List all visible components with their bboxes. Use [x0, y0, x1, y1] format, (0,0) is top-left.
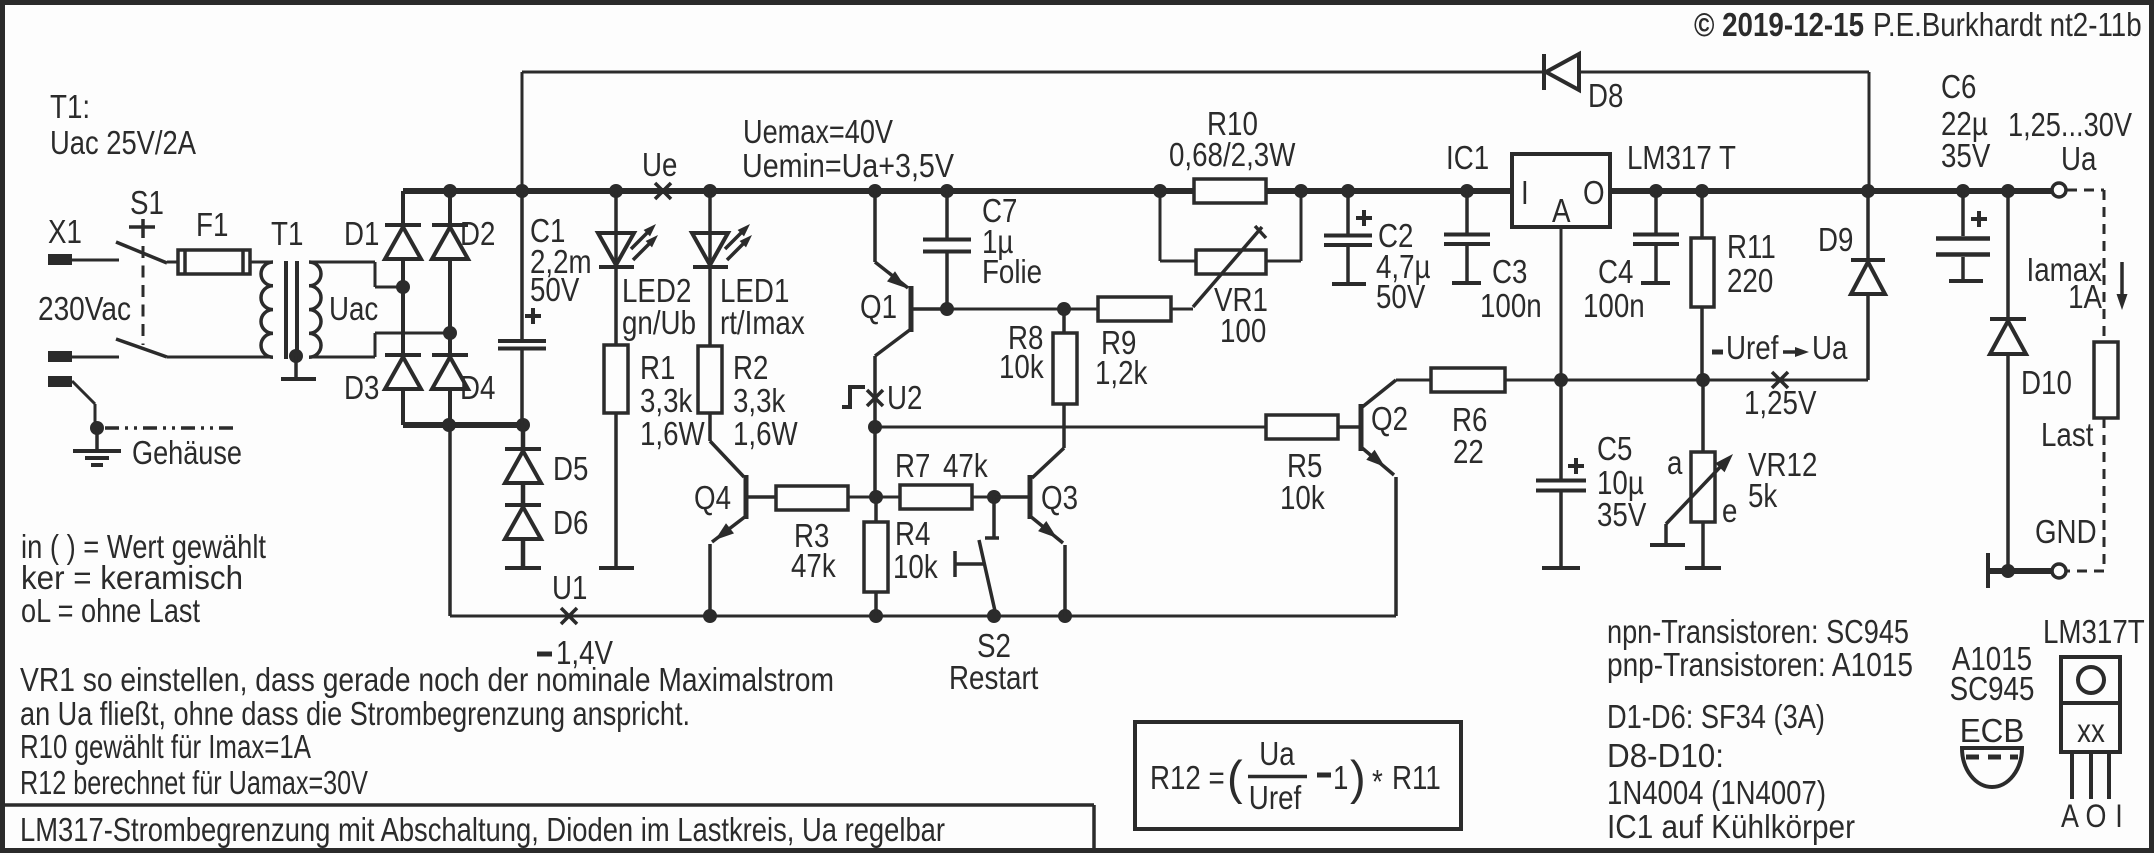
svg-text:Ua: Ua: [2061, 140, 2097, 177]
label note R10: [20, 728, 311, 765]
resistor R2: [698, 346, 722, 413]
label legend: [21, 528, 266, 629]
terminal D6 end: [505, 566, 541, 570]
svg-text:35V: 35V: [1597, 496, 1646, 533]
svg-text:Ua: Ua: [1259, 735, 1295, 772]
svg-text:X1: X1: [48, 213, 82, 250]
svg-text:220: 220: [1727, 262, 1773, 299]
svg-text:Uref: Uref: [1249, 779, 1302, 816]
svg-text:C6: C6: [1941, 68, 1976, 105]
label note R12: [20, 764, 368, 801]
wire secondary bottom: [309, 333, 450, 357]
transistor Q2: [1338, 380, 1396, 616]
svg-text:I: I: [2115, 798, 2123, 834]
svg-text:GND: GND: [2035, 513, 2097, 550]
svg-text:D3: D3: [344, 369, 379, 406]
svg-text:10k: 10k: [999, 348, 1044, 385]
svg-text:230Vac: 230Vac: [38, 290, 131, 327]
junction GND D10: [2001, 564, 2015, 578]
svg-text:VR1 so einstellen, dass gerade: VR1 so einstellen, dass gerade noch der …: [20, 661, 834, 698]
svg-text:D8: D8: [1588, 77, 1623, 114]
wire S1 to F1: [167, 261, 178, 264]
svg-text:LM317T: LM317T: [2043, 613, 2145, 650]
svg-text:IC1 auf Kühlkörper: IC1 auf Kühlkörper: [1607, 808, 1855, 845]
resistor R1: [604, 345, 628, 413]
svg-text:100n: 100n: [1583, 287, 1645, 324]
svg-text:xx: xx: [2077, 712, 2105, 749]
wire C7 top: [945, 191, 949, 238]
svg-text:R1: R1: [640, 349, 675, 386]
svg-text:npn-Transistoren: SC945: npn-Transistoren: SC945: [1607, 613, 1909, 650]
label 230Vac: [38, 290, 131, 327]
wire secondary top: [309, 262, 403, 287]
junction rail R4: [869, 609, 883, 623]
title text: [20, 811, 945, 848]
svg-text:S1: S1: [130, 184, 164, 221]
wire R2 to Q4: [708, 413, 712, 441]
label C1: [530, 212, 592, 308]
label T1: [271, 215, 303, 252]
svg-text:1,25V: 1,25V: [1744, 384, 1817, 421]
label IC1: [1446, 139, 1489, 176]
wire R1 bottom: [614, 413, 618, 568]
wire top feedback: [522, 72, 1869, 191]
svg-text:5k: 5k: [1748, 477, 1778, 514]
svg-text:D8-D10:: D8-D10:: [1607, 737, 1724, 774]
resistor R10: [1194, 179, 1266, 203]
svg-text:3,3k: 3,3k: [640, 382, 693, 419]
svg-text:D1-D6: SF34 (3A): D1-D6: SF34 (3A): [1607, 698, 1825, 735]
junction ADJ R6: [1554, 373, 1568, 387]
svg-text:D5: D5: [553, 450, 588, 487]
svg-text:T1:: T1:: [50, 88, 90, 125]
wire D5 chain: [521, 425, 526, 568]
svg-text:pnp-Transistoren: A1015: pnp-Transistoren: A1015: [1607, 646, 1913, 683]
svg-text:A: A: [2061, 798, 2079, 834]
wire LED2 top: [614, 191, 618, 266]
resistor R3: [776, 486, 848, 510]
svg-text:R12 =: R12 =: [1150, 759, 1225, 796]
wire chassis dash-dot: [105, 426, 233, 430]
svg-text:Uac: Uac: [329, 290, 378, 327]
resistor R7: [876, 485, 994, 509]
transistor Q3: [994, 475, 1065, 616]
svg-text:U2: U2: [887, 379, 922, 416]
svg-text:50V: 50V: [1376, 278, 1425, 315]
junction R7 S2 Q3: [987, 490, 1001, 504]
wire S1 to T1 primary: [167, 356, 273, 359]
label F1: [196, 206, 228, 243]
terminal Ua: [2052, 183, 2066, 197]
label R2: [733, 349, 798, 452]
wire bottom rail: [450, 425, 1396, 616]
capacitor C1: [498, 308, 546, 349]
label C6: [1941, 68, 1990, 174]
svg-text:*: *: [1372, 763, 1383, 800]
svg-text:LM317 T: LM317 T: [1627, 139, 1736, 176]
junction bus LED2: [609, 184, 623, 198]
junction bus C7: [940, 184, 954, 198]
junction rail right: [516, 418, 530, 432]
svg-text:D2: D2: [460, 215, 495, 252]
svg-text:Gehäuse: Gehäuse: [132, 434, 242, 471]
svg-text:ECB: ECB: [1960, 712, 2025, 749]
label IC1 note: [1607, 808, 1855, 845]
label Iamax: [2027, 251, 2103, 315]
svg-text:35V: 35V: [1941, 137, 1990, 174]
transformer T1 primary winding: [261, 262, 273, 357]
label C7: [982, 192, 1042, 290]
resistor R11: [1691, 191, 1714, 380]
label D10: [2021, 364, 2072, 401]
resistor R6: [1431, 368, 1505, 392]
node Uref marker: [1712, 329, 1848, 421]
label Q1: [860, 288, 897, 325]
label T1 note: [50, 88, 196, 161]
junction bus LED1: [703, 184, 717, 198]
svg-text:): ): [1350, 751, 1366, 804]
led LED2: [598, 224, 658, 267]
junction bridge AC left: [396, 280, 410, 294]
wire Q1 base to R8: [947, 308, 1064, 311]
wire U2 node: [868, 420, 1266, 497]
diode D8: [1544, 54, 1579, 90]
wire C7 bottom: [945, 253, 949, 309]
svg-text:50V: 50V: [530, 271, 579, 308]
svg-text:IC1: IC1: [1446, 139, 1489, 176]
wire LED1 to R2: [708, 267, 712, 346]
diode D9: [1851, 191, 1885, 380]
svg-text:D9: D9: [1818, 221, 1853, 258]
svg-text:C4: C4: [1598, 253, 1633, 290]
label S1: [130, 184, 164, 221]
label R8: [999, 319, 1044, 385]
label R3: [791, 517, 836, 584]
svg-text:3,3k: 3,3k: [733, 382, 786, 419]
svg-text:R11: R11: [1392, 759, 1441, 796]
current arrow: [2117, 262, 2128, 310]
wire GND rail: [1988, 553, 2052, 588]
capacitor C7: [923, 240, 971, 252]
junction T1 core ground: [289, 349, 303, 363]
wire R6 to ADJ: [1505, 379, 1561, 382]
diode D5: [505, 449, 541, 483]
label LED2: [622, 272, 696, 341]
svg-text:D10: D10: [2021, 364, 2072, 401]
wire ADJ: [1561, 227, 1868, 380]
label output range: [2008, 106, 2132, 143]
svg-text:100: 100: [1220, 312, 1266, 349]
label C2: [1376, 217, 1431, 315]
wire bridge left column: [401, 191, 405, 425]
label C3: [1480, 253, 1542, 324]
label R6: [1452, 401, 1487, 470]
label S2: [949, 627, 1038, 696]
svg-text:10k: 10k: [1280, 479, 1325, 516]
label Uemax: [743, 113, 893, 150]
transformer T1 secondary winding: [309, 262, 321, 357]
terminal GND: [2052, 564, 2066, 578]
label Q4: [694, 479, 731, 516]
svg-text:LM317-Strombegrenzung mit Absc: LM317-Strombegrenzung mit Abschaltung, D…: [20, 811, 945, 848]
svg-text:a: a: [1667, 444, 1683, 481]
switch S1 pole1 blade: [116, 242, 167, 263]
label D4: [460, 369, 495, 406]
svg-text:47k: 47k: [791, 547, 836, 584]
package TO-220: [2043, 613, 2145, 834]
label LM317 T: [1627, 139, 1736, 176]
label D2: [460, 215, 495, 252]
label R10: [1169, 105, 1296, 173]
svg-text:22: 22: [1453, 433, 1484, 470]
svg-text:Q3: Q3: [1041, 479, 1078, 516]
junction bus Q1: [868, 184, 882, 198]
wire bridge right column: [448, 191, 452, 425]
svg-text:0,68/2,3W: 0,68/2,3W: [1169, 136, 1296, 173]
led LED1: [692, 224, 752, 267]
label C4: [1583, 253, 1645, 324]
wire main positive bus: [403, 188, 2052, 194]
junction rail S2: [987, 609, 1001, 623]
trimmer VR1: [1193, 226, 1266, 307]
ground chassis symbol: [73, 428, 121, 465]
junction bus D9: [1861, 184, 1875, 198]
wire X1 line: [72, 259, 119, 262]
diode D10: [1990, 191, 2026, 571]
label Last: [2041, 416, 2093, 453]
diode D3: [385, 355, 421, 389]
label transistor types: [1607, 613, 1913, 683]
svg-text:Ua: Ua: [1812, 329, 1848, 366]
junction rail left: [442, 418, 456, 432]
capacitor C6: [1936, 191, 1990, 281]
label X1: [48, 213, 82, 250]
node U2: [842, 379, 922, 416]
label VR12: [1667, 444, 1817, 529]
wire Q2 to R6: [1396, 379, 1431, 382]
junction bus C1: [515, 184, 529, 198]
svg-text:Uemax=40V: Uemax=40V: [743, 113, 893, 150]
svg-text:© 2019-12-15: © 2019-12-15: [1694, 6, 1864, 43]
svg-text:A: A: [1552, 192, 1571, 229]
resistor R5: [1266, 415, 1338, 439]
junction bus C2: [1341, 184, 1355, 198]
wire X1 earth: [72, 381, 95, 428]
svg-text:T1: T1: [271, 215, 303, 252]
label D3: [344, 369, 379, 406]
junction bus R10 right: [1294, 184, 1308, 198]
label R7: [895, 447, 988, 484]
junction earth node: [90, 421, 104, 435]
label D1: [344, 215, 379, 252]
capacitor C2: [1324, 191, 1372, 284]
title box: [5, 805, 1094, 848]
junction base line R8: [1057, 302, 1071, 316]
junction bus C4: [1649, 184, 1663, 198]
svg-text:C3: C3: [1492, 253, 1527, 290]
transistor Q4: [710, 441, 776, 616]
svg-text:Restart: Restart: [949, 659, 1038, 696]
svg-text:1,25...30V: 1,25...30V: [2008, 106, 2132, 143]
wire R8 top: [1062, 309, 1066, 333]
resistor R9: [1064, 297, 1193, 321]
junction bus D10: [2001, 184, 2015, 198]
svg-text:R7: R7: [895, 447, 930, 484]
svg-text:gn/Ub: gn/Ub: [622, 304, 696, 341]
svg-text:R10 gewählt für Imax=1A: R10 gewählt für Imax=1A: [20, 728, 311, 765]
svg-text:Uemin=Ua+3,5V: Uemin=Ua+3,5V: [742, 147, 954, 184]
label Uac winding: [329, 290, 378, 327]
svg-text:Last: Last: [2041, 416, 2093, 453]
svg-text:1N4004 (1N4007): 1N4004 (1N4007): [1607, 774, 1826, 811]
label D8: [1588, 77, 1623, 114]
svg-text:100n: 100n: [1480, 287, 1542, 324]
junction R3 R7 R4: [869, 490, 883, 504]
svg-text:R11: R11: [1727, 228, 1776, 265]
svg-text:D6: D6: [553, 504, 588, 541]
label note VR1: [20, 661, 834, 732]
label Q3: [1041, 479, 1078, 516]
label Gehäuse: [132, 434, 242, 471]
svg-text:Ue: Ue: [642, 146, 677, 183]
wire C1 bottom: [520, 350, 524, 425]
transformer T1 core: [286, 261, 297, 359]
diode D1: [385, 225, 421, 259]
copyright: [1694, 6, 2142, 43]
wire VR1 loop: [1160, 191, 1301, 261]
svg-text:1,6W: 1,6W: [640, 415, 705, 452]
node U1: [552, 569, 587, 624]
capacitor C4: [1633, 191, 1679, 283]
transistor Q1: [875, 191, 947, 427]
diode D2: [432, 225, 468, 259]
label R5: [1280, 447, 1325, 516]
svg-text:I: I: [1521, 174, 1529, 211]
diode D4: [432, 355, 468, 389]
label R1: [640, 349, 705, 452]
trimmer VR12: [1650, 380, 1733, 568]
label GND: [2035, 513, 2097, 550]
label diode types: [1607, 698, 1826, 811]
svg-text:P.E.Burkhardt nt2-11b: P.E.Burkhardt nt2-11b: [1873, 6, 2142, 43]
svg-text:SC945: SC945: [1950, 670, 2035, 707]
svg-text:D1: D1: [344, 215, 379, 252]
regulator IC1: [1512, 154, 1610, 229]
svg-text:R2: R2: [733, 349, 768, 386]
switch S1 link: [129, 219, 155, 345]
wire load dashed: [2067, 190, 2104, 571]
svg-text:Folie: Folie: [982, 253, 1042, 290]
label C5: [1597, 430, 1646, 533]
capacitor C5: [1536, 380, 1586, 568]
svg-text:O: O: [1583, 174, 1605, 211]
svg-text:F1: F1: [196, 206, 228, 243]
svg-text:1A: 1A: [2068, 278, 2102, 315]
svg-text:Uac 25V/2A: Uac 25V/2A: [50, 124, 196, 161]
svg-text:Uref: Uref: [1726, 329, 1779, 366]
svg-text:R12 berechnet für Uamax=30V: R12 berechnet für Uamax=30V: [20, 764, 368, 801]
node Ue: [642, 146, 677, 199]
label Ua: [2061, 140, 2097, 177]
capacitor C3: [1444, 191, 1490, 283]
wire R8 to Q3: [1032, 404, 1064, 478]
svg-text:rt/Imax: rt/Imax: [720, 304, 805, 341]
label -1,4V: [537, 634, 613, 671]
label R11: [1727, 228, 1776, 299]
svg-text:U1: U1: [552, 569, 587, 606]
svg-text:Q4: Q4: [694, 479, 731, 516]
label R4: [893, 515, 938, 585]
wire F1 to T1: [250, 261, 273, 264]
svg-text:D4: D4: [460, 369, 495, 406]
svg-text:1,6W: 1,6W: [733, 415, 798, 452]
junction rail Q3: [1058, 609, 1072, 623]
svg-text:R4: R4: [895, 515, 930, 552]
package TO-92: [1950, 640, 2035, 787]
svg-text:Q2: Q2: [1371, 400, 1408, 437]
svg-text:oL = ohne Last: oL = ohne Last: [21, 592, 200, 629]
wire R3 to node: [848, 496, 876, 499]
fuse F1: [178, 250, 250, 274]
label D5: [553, 450, 588, 487]
wire LED1 top: [708, 191, 712, 266]
label Uemin: [742, 147, 954, 184]
wire LED2 to R1: [614, 267, 618, 345]
wire bridge bottom rail: [403, 422, 523, 428]
diode D6: [505, 505, 541, 539]
label D9: [1818, 221, 1853, 258]
wire C1 top: [520, 191, 524, 339]
junction bus R10 left: [1153, 184, 1167, 198]
transformer core ground stub: [281, 356, 316, 379]
junction bus C3: [1460, 184, 1474, 198]
svg-text:Q1: Q1: [860, 288, 897, 325]
label Q2: [1371, 400, 1408, 437]
svg-text:1,2k: 1,2k: [1095, 354, 1148, 391]
svg-text:C5: C5: [1597, 430, 1632, 467]
svg-text:10k: 10k: [893, 548, 938, 585]
junction bus C6: [1956, 184, 1970, 198]
terminal R1 end: [599, 566, 634, 570]
switch S1 pole2 blade: [116, 339, 167, 357]
svg-text:an Ua fließt, ohne dass die St: an Ua fließt, ohne dass die Strombegrenz…: [20, 695, 690, 732]
label D6: [553, 504, 588, 541]
formula box: [1135, 722, 1461, 829]
junction rail Q4: [703, 609, 717, 623]
svg-text:ker = keramisch: ker = keramisch: [21, 559, 243, 596]
label LED1: [720, 272, 805, 341]
label R9: [1095, 324, 1148, 391]
wire X1 neutral: [72, 356, 119, 359]
junction ADJ R11: [1696, 373, 1710, 387]
resistor R4: [864, 497, 888, 616]
junction base line C7: [940, 302, 954, 316]
junction bridge AC right: [443, 326, 457, 340]
switch S2: [955, 497, 999, 611]
svg-text:(: (: [1227, 751, 1243, 804]
resistor R8: [1053, 333, 1077, 404]
load Last: [2094, 342, 2118, 418]
junction bus D2 top: [443, 184, 457, 198]
svg-text:47k: 47k: [943, 447, 988, 484]
svg-text:e: e: [1722, 492, 1737, 529]
label VR1: [1214, 281, 1268, 349]
terminal X1 pads: [48, 254, 72, 387]
svg-text:O: O: [2086, 798, 2107, 834]
junction bus R11: [1695, 184, 1709, 198]
